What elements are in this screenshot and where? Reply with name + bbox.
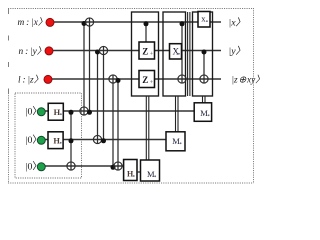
- wire l: [52, 78, 221, 80]
- svg-text:x: x: [201, 14, 206, 24]
- group box C (X + cnot block): [193, 12, 213, 96]
- cnot n->a2 control on n: [95, 50, 100, 55]
- svg-text:m : |x〉: m : |x〉: [18, 17, 48, 28]
- box C control dot on n: [202, 50, 207, 55]
- input green dot a3: [37, 163, 45, 171]
- wire n: [53, 50, 221, 52]
- H gate ancilla1: [48, 103, 63, 120]
- svg-text:H: H: [53, 136, 60, 145]
- X gate on n: [170, 44, 182, 59]
- toffoli control dot a1: [69, 110, 74, 115]
- svg-text:H: H: [127, 170, 134, 179]
- toffoli control dot a2: [69, 138, 74, 143]
- box B control wire: [181, 24, 183, 83]
- svg-text:+: +: [150, 52, 154, 58]
- wire ancilla3: [44, 165, 124, 167]
- measurement M ancilla3: [141, 160, 160, 181]
- Z gate on l: [139, 71, 155, 88]
- svg-text:H: H: [54, 108, 61, 117]
- input green dot a2: [37, 136, 45, 144]
- box A control wire: [145, 24, 147, 42]
- cnot l->a3 wire: [117, 79, 119, 170]
- classical line box B to M2: [176, 96, 179, 132]
- X gate on m (top): [198, 12, 210, 28]
- classical double line pair between B and C: [188, 12, 190, 96]
- toffoli a1,a2 -> a3 vertical wire: [70, 111, 72, 170]
- H gate ancilla2: [48, 132, 63, 149]
- svg-text:|y〉: |y〉: [229, 45, 246, 57]
- svg-text:M: M: [147, 169, 155, 179]
- input red dot l: [44, 75, 52, 83]
- box C cnot wire: [203, 52, 205, 83]
- group box A (controlled-Z block): [132, 12, 159, 96]
- box B target on l: [178, 75, 186, 83]
- wire m: [54, 21, 221, 23]
- svg-text:Z: Z: [142, 46, 148, 56]
- cnot a3->l control on a3: [111, 165, 116, 170]
- cnot a3->l wire: [112, 75, 114, 168]
- cnot a1->m target on m: [85, 18, 93, 26]
- wire ancilla1: [44, 110, 194, 112]
- measurement M ancilla2: [166, 132, 185, 151]
- box C target on l: [200, 75, 208, 83]
- svg-text:M: M: [200, 108, 208, 118]
- cnot m->a1 target on a1: [80, 107, 88, 115]
- group box B (controlled-X block): [163, 12, 186, 96]
- svg-text:n : |y〉: n : |y〉: [19, 46, 47, 57]
- cnot a1->m control on a1: [87, 110, 92, 115]
- box A control dot on m: [144, 21, 149, 26]
- Z gate on n: [139, 42, 155, 59]
- cnot l->a3 control on l: [116, 78, 121, 83]
- wire ancilla2: [44, 139, 167, 141]
- cnot m->a1 control on m: [82, 21, 87, 26]
- svg-text:|z ⊕ xy〉: |z ⊕ xy〉: [232, 75, 261, 86]
- cnot a1->m wire: [89, 18, 91, 113]
- input red dot n: [45, 47, 53, 55]
- tiny subscript marks: [60, 20, 210, 177]
- input green dot a1: [37, 108, 45, 116]
- cnot a2->n control on a2: [101, 138, 106, 143]
- svg-text:|x〉: |x〉: [229, 17, 246, 29]
- measurement M ancilla1: [194, 103, 211, 122]
- svg-text:M: M: [172, 136, 180, 146]
- cnot n->a2 target on a2: [93, 135, 101, 143]
- outer dashed frame: [8, 8, 254, 184]
- classical line box C to M1: [203, 96, 206, 103]
- toffoli target on a3: [67, 162, 75, 170]
- svg-text:l : |z〉: l : |z〉: [18, 74, 43, 85]
- box B control dot on m: [180, 21, 185, 26]
- svg-text:X: X: [173, 46, 180, 56]
- cnot a2->n target on n: [99, 46, 107, 54]
- cnot a3->l target on l: [109, 75, 117, 83]
- svg-text:Z: Z: [142, 75, 148, 85]
- cnot n->a2 wire: [97, 51, 99, 144]
- svg-text:+: +: [150, 80, 154, 86]
- input red dot m: [46, 18, 54, 26]
- ancilla group dashed box: [15, 93, 82, 178]
- cnot m->a1 wire: [83, 22, 85, 115]
- cnot l->a3 target on a3: [114, 162, 122, 170]
- H gate ancilla3: [124, 160, 137, 181]
- wire stub between H and M on ancilla3: [137, 171, 141, 173]
- classical line box A to M3: [146, 96, 149, 160]
- cnot a2->n wire: [103, 46, 105, 141]
